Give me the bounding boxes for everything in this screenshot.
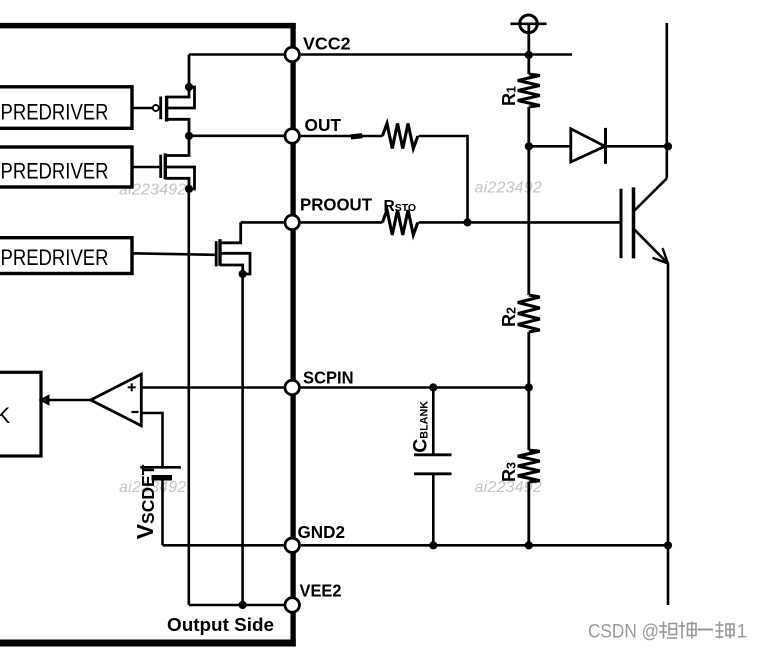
svg-text:CSDN @: CSDN @ (588, 621, 659, 643)
svg-text:GND2: GND2 (298, 522, 346, 542)
svg-text:PROOUT: PROOUT (300, 194, 372, 214)
svg-text:ai223492: ai223492 (475, 180, 542, 197)
svg-text:Output Side: Output Side (167, 614, 274, 635)
svg-text:1: 1 (737, 621, 748, 643)
svg-text:PREDRIVER: PREDRIVER (1, 159, 109, 184)
svg-text:VCC2: VCC2 (303, 34, 351, 54)
svg-text:PREDRIVER: PREDRIVER (1, 245, 109, 270)
svg-text:SCPIN: SCPIN (303, 368, 354, 388)
svg-text:PREDRIVER: PREDRIVER (1, 100, 109, 125)
svg-text:OUT: OUT (305, 115, 342, 135)
svg-text:K: K (0, 403, 11, 428)
svg-text:VEE2: VEE2 (300, 581, 342, 601)
